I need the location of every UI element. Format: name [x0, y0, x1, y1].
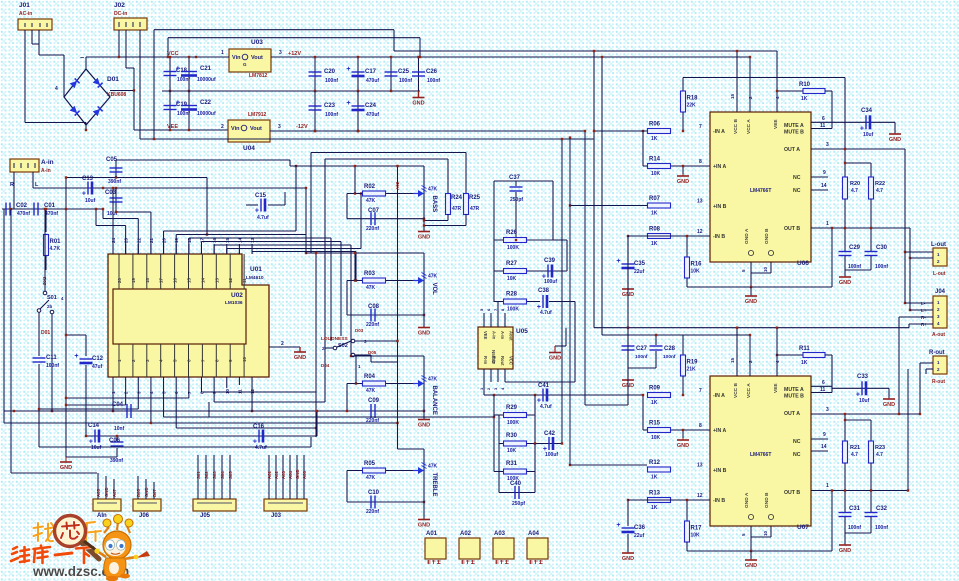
connector J05	[193, 499, 236, 511]
svg-text:1: 1	[826, 221, 829, 227]
svg-text:R20: R20	[850, 181, 860, 187]
svg-text:+IN A: +IN A	[713, 164, 726, 170]
svg-text:+: +	[616, 258, 620, 265]
OUT A wire	[811, 148, 905, 150]
svg-text:GND: GND	[412, 101, 424, 107]
resistor R23 zobel	[845, 419, 871, 421]
resistor R17	[686, 500, 688, 521]
wire C12 top jog	[66, 334, 86, 336]
capacitor C23	[314, 91, 316, 131]
svg-text:GND B: GND B	[764, 492, 770, 508]
-12V rail	[270, 130, 585, 132]
wire bridge right vertex	[110, 90, 134, 92]
svg-text:C13: C13	[82, 176, 94, 182]
svg-text:17: 17	[159, 277, 164, 283]
svg-text:Aout: Aout	[509, 331, 514, 341]
wire bridge top to VCC rail	[85, 57, 87, 69]
capacitor C37	[515, 181, 517, 186]
svg-text:20: 20	[117, 277, 122, 283]
svg-text:U05: U05	[516, 328, 528, 335]
svg-text:47K: 47K	[366, 285, 376, 291]
wire J02 pin4 to return rail	[139, 30, 141, 139]
input line R13	[628, 499, 647, 501]
svg-text:A02: A02	[274, 471, 279, 479]
svg-text:GND: GND	[418, 331, 430, 337]
svg-text:1K: 1K	[651, 136, 658, 142]
svg-text:OUT B: OUT B	[784, 490, 800, 496]
svg-text:LM4610: LM4610	[246, 275, 264, 281]
svg-text:A-in: A-in	[41, 159, 54, 166]
svg-text:R26: R26	[506, 230, 518, 236]
svg-text:U02: U02	[231, 292, 243, 299]
svg-text:10: 10	[242, 356, 247, 362]
svg-text:100K: 100K	[507, 245, 519, 251]
svg-text:11: 11	[820, 123, 826, 129]
mount hole A01	[425, 538, 446, 559]
svg-text:GND: GND	[839, 280, 851, 286]
svg-text:R01: R01	[50, 239, 62, 245]
input line L	[33, 187, 306, 189]
svg-text:10: 10	[763, 530, 768, 536]
svg-text:D05: D05	[368, 350, 377, 355]
svg-text:13: 13	[697, 199, 703, 205]
capacitor C04	[126, 404, 128, 418]
resistor R02	[347, 193, 418, 195]
svg-text:C31: C31	[849, 506, 861, 512]
svg-text:C03: C03	[105, 190, 117, 196]
capacitor C38	[542, 295, 544, 308]
resistor R08	[648, 234, 671, 239]
resistor R12	[648, 467, 671, 472]
wire L down	[32, 182, 34, 188]
svg-text:C20: C20	[324, 69, 336, 75]
svg-text:D03: D03	[355, 328, 364, 333]
left loop v	[493, 181, 495, 302]
svg-text:R: R	[10, 182, 14, 188]
svg-text:R14: R14	[649, 157, 661, 163]
svg-text:47R: 47R	[470, 206, 480, 212]
wire R15 bias	[642, 395, 644, 430]
svg-text:GND: GND	[745, 299, 757, 305]
C29 C30 bottom line	[845, 269, 871, 271]
ground bottom left	[65, 457, 67, 462]
svg-text:1K: 1K	[651, 505, 658, 511]
C33 wires	[831, 355, 833, 393]
svg-text:9: 9	[823, 170, 826, 176]
svg-text:J02: J02	[114, 2, 125, 9]
svg-text:R23: R23	[875, 445, 885, 451]
svg-text:C07: C07	[368, 208, 380, 214]
capacitor C10	[346, 471, 348, 503]
IC U02 LM1036 inner	[113, 289, 246, 344]
svg-text:2: 2	[281, 341, 284, 347]
svg-text:R06: R06	[649, 122, 661, 128]
svg-text:R13: R13	[649, 491, 661, 497]
L-out feed	[904, 149, 906, 303]
svg-text:VOL: VOL	[431, 283, 437, 296]
watermark mascot	[84, 515, 150, 581]
svg-text:C30: C30	[876, 245, 888, 251]
svg-text:J03: J03	[271, 513, 282, 519]
capacitor C22	[188, 91, 190, 130]
capacitor C17	[357, 57, 359, 91]
svg-text:220nf: 220nf	[366, 418, 379, 424]
wire R04 drop	[355, 356, 357, 384]
wire C12 down	[85, 365, 87, 436]
svg-text:GND: GND	[677, 179, 689, 185]
svg-text:S04: S04	[220, 471, 225, 479]
svg-text:NC: NC	[793, 188, 801, 194]
IC U01 LM4610 outer	[108, 254, 269, 377]
svg-text:2b: 2b	[47, 304, 53, 309]
svg-text:A-In: A-In	[492, 331, 497, 340]
svg-text:KBU608: KBU608	[107, 92, 126, 98]
svg-text:B07: B07	[152, 489, 157, 497]
wire J01 pin3 to bridge left	[38, 30, 40, 55]
svg-text:9: 9	[823, 432, 826, 438]
svg-text:VEE: VEE	[773, 383, 779, 393]
wire R14 bias	[642, 131, 644, 166]
resistor R20 zobel	[844, 78, 846, 178]
svg-text:1: 1	[221, 50, 224, 56]
wire bridge bottom to VEE	[85, 125, 87, 130]
svg-text:J01: J01	[19, 2, 30, 9]
mute pin wires	[811, 385, 832, 387]
svg-text:S01: S01	[47, 295, 57, 301]
svg-text:100nf: 100nf	[635, 354, 648, 360]
power amp U06 LM4766T	[710, 112, 811, 262]
connector J03	[264, 499, 307, 511]
wire J04 p1	[905, 302, 933, 304]
capacitor C19	[169, 91, 171, 130]
resistor R25	[465, 194, 467, 199]
svg-text:470nf: 470nf	[17, 211, 30, 217]
svg-text:GND: GND	[549, 356, 561, 362]
svg-text:C08: C08	[368, 304, 380, 310]
svg-text:N5532: N5532	[491, 350, 496, 364]
svg-text:10uf: 10uf	[863, 132, 874, 138]
svg-text:Vout: Vout	[251, 55, 263, 61]
svg-text:R22: R22	[875, 181, 885, 187]
resistor R18	[682, 78, 684, 92]
resistor R15	[647, 429, 710, 431]
svg-text:10K: 10K	[651, 171, 661, 177]
svg-text:C17: C17	[365, 69, 377, 75]
feedback bus	[397, 166, 399, 449]
capacitor C06	[116, 436, 118, 441]
svg-text:R11: R11	[799, 346, 810, 352]
return rail	[140, 138, 594, 140]
svg-text:15: 15	[730, 93, 735, 99]
svg-text:16: 16	[173, 277, 178, 283]
line y447	[39, 446, 311, 448]
IC U05 NE5532	[478, 327, 513, 369]
svg-text:C36: C36	[634, 525, 646, 531]
svg-text:14: 14	[200, 277, 205, 283]
ground U05	[555, 345, 566, 347]
wire C38 loop	[497, 302, 499, 314]
capacitor C11	[38, 312, 40, 356]
svg-text:B05: B05	[136, 489, 141, 497]
input line R12	[570, 464, 647, 466]
capacitor C18	[169, 57, 171, 91]
vert x535	[534, 395, 536, 444]
svg-text:+: +	[255, 208, 259, 215]
svg-text:10nf: 10nf	[114, 426, 125, 432]
capacitor C09 line	[4, 410, 424, 412]
capacitor C41	[542, 389, 544, 402]
wire R-out pins	[920, 362, 933, 364]
svg-text:G: G	[243, 62, 247, 67]
svg-text:L-out: L-out	[931, 242, 946, 248]
svg-text:R-In: R-In	[483, 356, 488, 365]
svg-text:10uf: 10uf	[91, 445, 102, 451]
svg-text:A06: A06	[302, 471, 307, 479]
switch S01	[43, 291, 47, 295]
svg-text:GND: GND	[418, 523, 430, 529]
svg-text:C29: C29	[849, 245, 861, 251]
svg-text:390nf: 390nf	[108, 179, 121, 185]
svg-text:47K: 47K	[428, 377, 438, 383]
balance top line	[351, 355, 424, 357]
svg-text:C42: C42	[544, 431, 556, 437]
svg-text:C35: C35	[634, 261, 646, 267]
svg-text:100nf: 100nf	[875, 264, 888, 270]
OUT B wire	[811, 227, 910, 229]
svg-text:R16: R16	[691, 262, 703, 268]
svg-text:R27: R27	[506, 261, 518, 267]
svg-text:10: 10	[763, 266, 768, 272]
svg-text:+: +	[74, 353, 78, 360]
svg-text:1K: 1K	[801, 360, 808, 366]
ground BALANCE	[418, 419, 430, 421]
capacitor C28	[655, 335, 657, 345]
svg-text:GND: GND	[295, 469, 300, 479]
wire J02 pin2 down	[125, 30, 127, 68]
svg-text:R15: R15	[649, 421, 661, 427]
capacitor C14	[94, 430, 96, 443]
svg-text:15: 15	[187, 277, 192, 283]
U07 vcc verticals	[736, 328, 738, 376]
VEE rail	[134, 129, 228, 131]
wire J04 p4	[909, 323, 933, 325]
svg-text:NC: NC	[793, 452, 801, 458]
svg-text:OUT A: OUT A	[784, 147, 800, 153]
resistor R16	[686, 236, 688, 257]
svg-text:3: 3	[826, 142, 829, 148]
C34 line	[832, 121, 895, 123]
svg-text:S02: S02	[204, 471, 209, 479]
pot BASS	[423, 166, 425, 231]
svg-text:U07: U07	[797, 524, 809, 531]
ground under GND rail	[418, 91, 420, 97]
capacitor C05	[115, 160, 117, 178]
svg-text:BALANCE: BALANCE	[431, 386, 437, 415]
wire OUTB feed	[909, 228, 911, 310]
svg-text:-12V: -12V	[296, 124, 308, 130]
svg-text:R09: R09	[649, 386, 661, 392]
VEE feed rail to U06	[394, 50, 777, 52]
svg-text:LM4766T: LM4766T	[750, 188, 771, 194]
wire S02 left	[325, 347, 333, 349]
svg-text:GND A: GND A	[744, 228, 750, 244]
svg-text:J04: J04	[935, 289, 946, 295]
svg-text:L-out: L-out	[933, 271, 946, 277]
long bus y327	[594, 327, 909, 329]
svg-text:U01: U01	[250, 266, 262, 273]
capacitor C31	[839, 512, 852, 514]
U01 top pin stubs	[112, 244, 114, 254]
svg-text:C02: C02	[16, 203, 28, 209]
wire VEE vertical U06	[776, 51, 778, 112]
mount hole A03	[493, 538, 514, 559]
U01 right pin 2 to gnd	[269, 346, 300, 348]
C27 line	[627, 327, 629, 329]
svg-text:8: 8	[699, 159, 702, 165]
capacitor C39	[547, 265, 549, 278]
VCC rail	[86, 56, 229, 58]
svg-text:GND: GND	[104, 487, 109, 497]
bass top line	[290, 165, 424, 167]
svg-text:14: 14	[821, 183, 827, 189]
svg-text:11: 11	[237, 389, 242, 394]
NC pins	[811, 438, 828, 440]
svg-text:LM1036: LM1036	[225, 300, 243, 306]
resistor R09	[648, 393, 671, 398]
svg-text:100nf: 100nf	[848, 264, 861, 270]
resistor R10	[777, 90, 803, 92]
capacitor C33	[861, 381, 863, 395]
svg-text:R31: R31	[506, 461, 518, 467]
U02 inner top pins	[118, 254, 120, 289]
watermark magnifier	[55, 516, 86, 547]
C05 line	[66, 177, 207, 179]
svg-text:DC-in: DC-in	[114, 11, 127, 17]
U02 inner bottom pins	[118, 344, 120, 377]
svg-text:Vout: Vout	[250, 126, 262, 132]
vertical x325	[324, 341, 326, 402]
svg-text:AIn: AIn	[97, 513, 107, 519]
capacitor C32	[865, 512, 878, 514]
svg-text:TREBLE: TREBLE	[431, 473, 437, 497]
svg-text:1: 1	[826, 483, 829, 489]
wire R03 drop	[354, 253, 356, 281]
svg-text:GND: GND	[883, 402, 895, 408]
long vertical x570	[569, 138, 571, 465]
ground TREBLE	[418, 519, 430, 521]
svg-text:C38: C38	[538, 288, 550, 294]
wire C16 up	[316, 411, 318, 436]
svg-text:A07: A07	[112, 489, 117, 497]
svg-text:47uf: 47uf	[92, 364, 103, 370]
svg-text:11: 11	[242, 278, 247, 283]
svg-text:C14: C14	[88, 423, 100, 429]
capacitor C35	[628, 235, 710, 237]
capacitor C21	[188, 57, 190, 91]
right loop v	[552, 181, 554, 240]
vertical left bus	[65, 178, 67, 458]
svg-text:R21: R21	[850, 445, 860, 451]
svg-text:C05: C05	[106, 157, 118, 163]
svg-text:R29: R29	[506, 405, 518, 411]
svg-text:100K: 100K	[507, 307, 519, 313]
resistor R01	[45, 209, 47, 232]
svg-text:A05: A05	[96, 489, 101, 497]
mute pin wires	[811, 121, 832, 123]
capacitor C29	[839, 251, 852, 253]
svg-text:A02: A02	[395, 181, 400, 190]
capacitor C12	[85, 335, 87, 356]
svg-text:+IN B: +IN B	[713, 468, 727, 474]
bottom return U06	[831, 228, 833, 287]
svg-text:GND: GND	[677, 443, 689, 449]
svg-text:C37: C37	[509, 175, 521, 181]
svg-text:10K: 10K	[691, 533, 701, 539]
C31 C32 bottom line	[845, 532, 871, 534]
+12V rail	[271, 56, 750, 58]
svg-text:A04: A04	[528, 531, 540, 537]
svg-text:A-out: A-out	[932, 332, 945, 338]
svg-text:GND: GND	[60, 465, 72, 471]
svg-text:C09: C09	[368, 398, 380, 404]
capacitor C36	[628, 499, 710, 501]
wire S02 right lower	[355, 354, 371, 356]
svg-text:4.7uf: 4.7uf	[540, 310, 552, 316]
R-out p2 feed	[907, 369, 909, 491]
C27 C28 gnd line	[628, 367, 656, 369]
svg-text:R08: R08	[649, 227, 661, 233]
capacitor C15	[260, 199, 262, 212]
capacitor C25	[390, 57, 392, 91]
svg-text:C06: C06	[109, 438, 121, 444]
svg-text:+IN A: +IN A	[713, 428, 726, 434]
ground VOL	[418, 327, 430, 329]
wire C01 junction down	[10, 208, 12, 210]
input line R06	[594, 130, 647, 132]
svg-text:6: 6	[822, 116, 825, 122]
long vertical x562	[561, 139, 563, 444]
svg-text:100nf: 100nf	[875, 525, 888, 531]
resistor R19	[682, 335, 684, 355]
GND rail	[162, 90, 420, 92]
svg-text:470uf: 470uf	[366, 112, 379, 118]
svg-text:7: 7	[699, 388, 702, 394]
svg-text:R28: R28	[506, 292, 518, 298]
svg-text:C25: C25	[398, 69, 410, 75]
svg-text:11: 11	[820, 387, 826, 393]
svg-text:OUT B: OUT B	[784, 226, 800, 232]
resistor R07	[648, 203, 671, 208]
watermark logo zhaoxinpian	[11, 516, 101, 564]
svg-text:21K: 21K	[687, 367, 697, 373]
svg-text:S01: S01	[196, 471, 201, 479]
svg-text:6: 6	[822, 380, 825, 386]
wire J02 pin1 to VCC rail	[118, 30, 120, 57]
svg-text:−: −	[80, 55, 84, 62]
svg-text:C11: C11	[46, 355, 57, 361]
svg-text:+: +	[176, 100, 180, 107]
OUT A wire	[811, 413, 920, 415]
treble top line	[398, 448, 425, 450]
svg-text:7: 7	[699, 124, 702, 130]
svg-text:GND A: GND A	[744, 492, 750, 508]
power amp U07 LM4766T	[710, 376, 811, 526]
top rail lower	[168, 37, 420, 39]
connector AIn	[93, 499, 121, 511]
resistor R27	[494, 270, 567, 272]
svg-text:U04: U04	[243, 145, 255, 152]
svg-text:GND B: GND B	[764, 228, 770, 244]
